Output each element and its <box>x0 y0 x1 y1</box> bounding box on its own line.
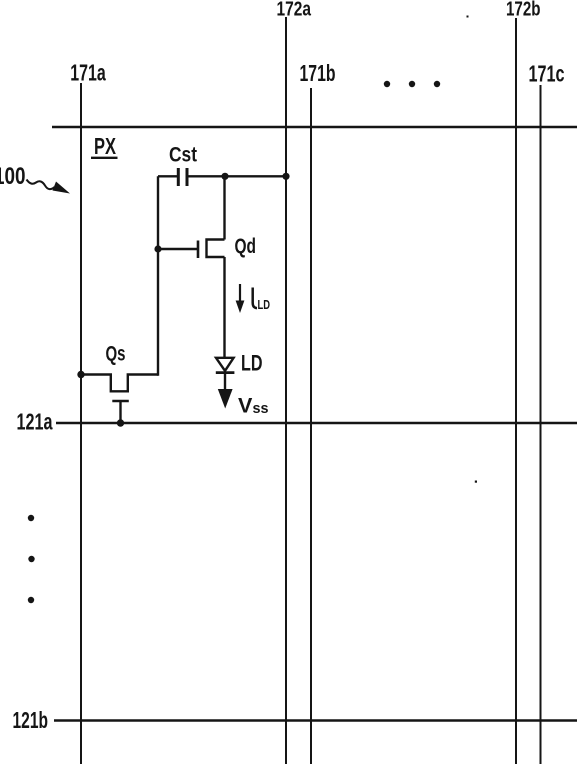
wire: data line 171b <box>310 88 312 764</box>
speck artifact middle right <box>475 481 477 483</box>
svg-text:ss: ss <box>253 400 269 417</box>
svg-text:LD: LD <box>258 297 271 312</box>
wire: left branch (cap left plate down to Qs drain) <box>157 176 159 375</box>
svg-text:V: V <box>238 394 253 418</box>
speck artifact top right <box>467 16 469 18</box>
transistor Qd gate lead <box>158 248 197 250</box>
wire: LED cathode to Vss terminal <box>224 373 226 390</box>
LED LD (organic light emitting diode) triangle <box>216 358 234 371</box>
svg-text:Qs: Qs <box>106 343 126 366</box>
LED LD cathode bar <box>216 371 235 374</box>
wire: data line 171a <box>80 83 82 764</box>
wire: storage node to 172a <box>189 175 287 177</box>
junction: Qs source on 171a <box>77 371 84 378</box>
wire: data line 171c <box>540 85 542 764</box>
leader squiggle arrow from 100 <box>27 180 55 190</box>
transistor Qs gate bar <box>112 400 129 403</box>
ellipsis dots (horizontal, between columns) <box>384 81 390 87</box>
svg-text:171a: 171a <box>70 60 106 86</box>
transistor Qd gate bar <box>197 241 200 259</box>
current label ILD <box>253 288 257 309</box>
wire: gate line 121a <box>56 422 577 424</box>
capacitor Cst plates <box>177 168 180 186</box>
transistor Qs channel <box>81 375 158 392</box>
transistor Qd channel <box>207 240 225 258</box>
wire: power line 172b <box>515 18 517 764</box>
svg-text:LD: LD <box>241 351 263 376</box>
wire: gate line 121b <box>54 719 577 721</box>
svg-text:Cst: Cst <box>169 143 197 167</box>
svg-text:PX: PX <box>94 133 116 159</box>
junction: Qd gate node <box>154 245 161 252</box>
svg-text:172b: 172b <box>506 0 541 20</box>
junction: Qs gate on 121a <box>117 419 124 426</box>
wire: left lead of Cst <box>158 175 177 177</box>
svg-text:171b: 171b <box>300 60 336 86</box>
wire: power line 172a <box>285 17 287 764</box>
junction: storage node N1 <box>221 173 228 180</box>
svg-text:171c: 171c <box>529 61 565 87</box>
ellipsis dots (vertical, between rows) <box>28 515 34 521</box>
junction: tap on 172a <box>282 173 289 180</box>
svg-text:172a: 172a <box>277 0 312 20</box>
current arrow ILD <box>239 284 241 306</box>
svg-text:121a: 121a <box>17 409 53 435</box>
wire: Qd source down to LED anode <box>223 257 225 358</box>
svg-text:100: 100 <box>0 163 26 190</box>
svg-text:121b: 121b <box>13 707 49 733</box>
svg-text:Qd: Qd <box>235 234 257 258</box>
PX underline <box>91 157 118 159</box>
power terminal Vss arrow <box>218 389 233 409</box>
transistor Qs gate lead <box>119 401 121 423</box>
transistor Qd drain wire from storage node <box>223 176 225 239</box>
wire: upper gate row line <box>52 126 577 128</box>
